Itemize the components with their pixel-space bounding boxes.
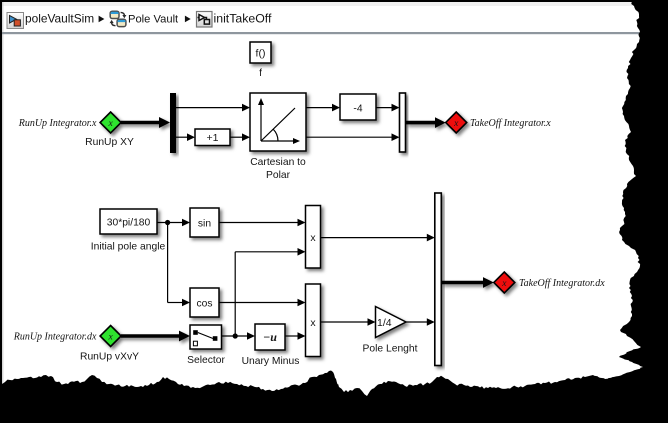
svg-text:x: x (501, 279, 507, 289)
svg-text:RunUp Integrator.dx: RunUp Integrator.dx (13, 332, 97, 343)
wire Unary Minus to product2 (285, 332, 306, 340)
svg-text:RunUp vXvY: RunUp vXvY (80, 352, 139, 363)
input port diamond: RunUp Integrator.x (100, 112, 121, 133)
svg-text:RunUp XY: RunUp XY (85, 137, 134, 148)
demux bar (170, 93, 176, 153)
output port diamond: TakeOff Integrator.dx (494, 272, 515, 293)
thick wire diamond to Selector (121, 331, 190, 342)
svg-text:sin: sin (198, 219, 211, 230)
output port diamond: TakeOff Integrator.x (446, 112, 467, 133)
block constant 30*pi/180 (100, 209, 157, 234)
svg-text:Pole Lenght: Pole Lenght (363, 344, 418, 355)
gain triangle 1/4 Pole Lenght (376, 307, 407, 338)
svg-text:initTakeOff: initTakeOff (214, 12, 272, 26)
wire Cartesian out2 to mux1 (306, 133, 400, 141)
svg-text:TakeOff Integrator.dx: TakeOff Integrator.dx (519, 278, 605, 289)
block f() U1 (250, 42, 271, 63)
block cos (190, 288, 219, 317)
toolbar strip background (0, 0, 668, 6)
thick wire diamond to demux (121, 117, 170, 128)
wire Selector to Unary Minus with branch up to product1 (222, 248, 306, 340)
svg-text:poleVaultSim: poleVaultSim (25, 12, 94, 26)
thick wire mux1 to output diamond (406, 117, 446, 128)
breadcrumb bar background (5, 6, 668, 32)
svg-text:Polar: Polar (266, 170, 291, 181)
window border left (0, 0, 2, 423)
breadcrumb icon: subsystem (Pole Vault) (110, 11, 127, 26)
input port diamond: RunUp Integrator.dx (100, 326, 121, 347)
wire gain to mux2 (406, 318, 435, 326)
breadcrumb separator 1 (99, 16, 105, 23)
block sin (190, 208, 219, 237)
svg-text:x: x (107, 333, 113, 343)
svg-text:TakeOff Integrator.x: TakeOff Integrator.x (470, 118, 551, 129)
wire product1 to mux2 (321, 234, 435, 242)
svg-text:−u: −u (263, 330, 277, 344)
block Selector (190, 325, 222, 349)
wire product2 to gain (321, 318, 376, 326)
block Unary Minus (255, 324, 285, 350)
product2 block x (306, 284, 321, 357)
svg-text:Selector: Selector (187, 355, 225, 366)
svg-text:Initial pole angle: Initial pole angle (91, 242, 166, 253)
wire Cartesian out1 to -4 (306, 104, 340, 112)
block +1 (195, 129, 230, 146)
svg-text:cos: cos (196, 299, 212, 310)
svg-text:x: x (453, 119, 459, 129)
breadcrumb bar bottom border (2, 32, 668, 34)
svg-text:f: f (259, 68, 262, 79)
breadcrumb icon: function (initTakeOff) (197, 12, 213, 28)
mux2 bar (435, 193, 442, 366)
svg-text:x: x (310, 232, 316, 244)
wire cos to product2 (219, 299, 306, 307)
breadcrumb icon: model (poleVaultSim) (7, 13, 24, 29)
wire demux to +1 (176, 133, 195, 141)
wire -4 to mux1 (376, 104, 400, 112)
wire demux to Cartesian in1 (176, 104, 250, 112)
window border top (0, 0, 668, 2)
left gutter hairline (2, 2, 3, 423)
block gain -4 (340, 94, 376, 120)
svg-text:Cartesian to: Cartesian to (250, 157, 306, 168)
product1 block x (306, 206, 321, 269)
svg-text:x: x (107, 119, 113, 129)
thick wire mux2 to output diamond dx (441, 277, 494, 288)
wire constant to sin with branch (157, 219, 190, 307)
svg-text:1/4: 1/4 (377, 317, 392, 329)
svg-text:30*pi/180: 30*pi/180 (107, 218, 151, 229)
wire sin to product1 (219, 219, 306, 227)
svg-text:-4: -4 (353, 104, 362, 115)
mux1 bar (400, 93, 406, 152)
svg-text:+1: +1 (207, 132, 219, 144)
block Cartesian to Polar (250, 93, 306, 151)
breadcrumb separator 2 (185, 16, 191, 23)
svg-text:RunUp Integrator.x: RunUp Integrator.x (18, 118, 97, 129)
svg-text:x: x (310, 317, 316, 329)
svg-text:f(): f() (256, 48, 266, 60)
svg-text:Pole Vault: Pole Vault (128, 14, 179, 26)
wire +1 to Cartesian in2 (230, 133, 250, 141)
svg-text:Unary Minus: Unary Minus (242, 356, 300, 367)
